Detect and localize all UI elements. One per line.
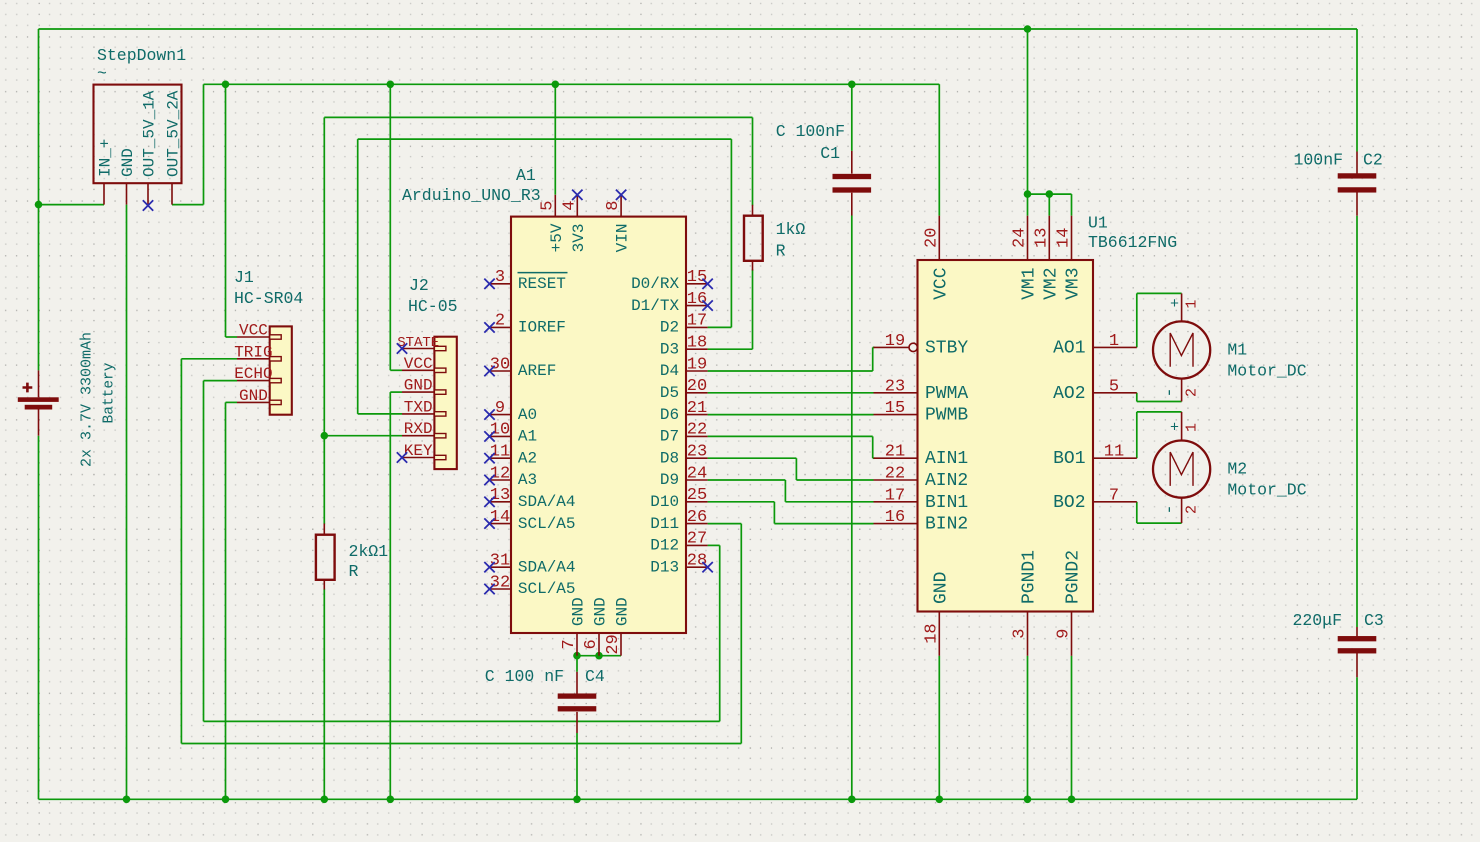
wire RXD riser [323,117,325,435]
svg-text:D11: D11 [650,515,679,533]
no-connect A2 [484,453,494,463]
svg-text:D10: D10 [650,493,679,511]
svg-text:13: 13 [1032,228,1051,248]
svg-text:SCL/A5: SCL/A5 [518,515,576,533]
wire VM3 link [1071,194,1073,216]
svg-text:20: 20 [922,228,941,248]
svg-text:GND: GND [119,148,137,177]
junction rail / U1 GND [936,796,944,804]
svg-text:IOREF: IOREF [518,319,566,337]
svg-text:VCC: VCC [404,355,433,373]
svg-text:R: R [349,562,359,581]
wire VM join [1028,193,1072,195]
no-connect D1/TX [702,300,712,310]
pin 11 A2 [490,457,512,459]
svg-text:22: 22 [885,465,905,484]
wire to C4 [576,656,578,672]
svg-text:AIN2: AIN2 [925,471,968,491]
svg-text:31: 31 [490,552,510,571]
pin 11 BO1 [1093,457,1137,459]
pin 24 D9 [686,479,708,481]
svg-text:2kΩ1: 2kΩ1 [349,542,389,561]
wire AIN1 link [873,457,875,459]
wire IN_+ to rail [39,204,105,206]
svg-text:2x 3.7V 3300mAh: 2x 3.7V 3300mAh [79,332,96,467]
junction Arduino GND B [595,652,603,660]
svg-text:D7: D7 [660,428,679,446]
junction +5V / J1 VCC [222,81,230,89]
svg-text:A3: A3 [518,471,537,489]
svg-text:GND: GND [570,597,588,626]
no-connect SCL/A5 [484,584,494,594]
svg-text:19: 19 [885,332,905,351]
svg-text:3: 3 [495,268,505,287]
no-connect D0/RX [702,279,712,289]
svg-text:5: 5 [538,201,557,211]
pin 22 AIN2 [874,479,918,481]
wire BO1-M2+ [1137,411,1182,413]
svg-text:1: 1 [1184,300,1201,309]
driver U1 TB6612FNG [874,214,1178,656]
svg-text:11: 11 [1104,443,1124,462]
pin 18 D3 [686,348,708,350]
svg-text:D13: D13 [650,558,679,576]
svg-text:6: 6 [582,639,601,649]
svg-text:Battery: Battery [102,362,118,423]
pin 17 BIN1 [874,501,918,503]
pin 1 AO1 [1093,346,1137,348]
svg-text:SCL/A5: SCL/A5 [518,580,576,598]
svg-text:Motor_DC: Motor_DC [1227,361,1306,380]
svg-text:24: 24 [1011,228,1030,248]
svg-text:C 100 nF: C 100 nF [485,667,564,686]
wire D10-BIN2 jog [773,502,775,524]
svg-text:GND: GND [404,377,433,395]
regulator StepDown1 [94,46,187,205]
wire right rail below C3 [1356,677,1358,799]
capacitor C3 220uF [1292,611,1383,677]
svg-text:24: 24 [687,464,707,483]
svg-text:A0: A0 [518,406,537,424]
svg-text:D12: D12 [650,537,679,555]
resistor R 2kOhm1 [316,524,388,590]
pin 4 3V3 [576,195,578,217]
svg-text:3: 3 [1011,628,1030,638]
wire R1 top run [324,116,752,118]
svg-text:R: R [776,242,786,261]
pin 21 D6 [686,414,708,416]
no-connect SDA/A4 [484,497,494,507]
wire J1 GND link [226,401,238,403]
svg-text:15: 15 [687,268,707,287]
junction rail / StepDown GND [123,796,131,804]
svg-text:VM3: VM3 [1064,268,1084,300]
svg-text:D5: D5 [660,384,679,402]
svg-text:7: 7 [560,639,579,649]
svg-text:+: + [1170,420,1179,437]
wire D5-PWMA [708,392,874,394]
svg-text:-: - [1161,387,1180,397]
wire J2 VCC link [390,369,402,371]
wire D2 riser [730,139,732,327]
wire BIN2 link [774,523,873,525]
no-connect 3V3 [572,190,582,200]
wire TRIG bottom run [181,743,741,745]
svg-text:+: + [1170,296,1179,313]
pin 7 GND [576,633,578,656]
pin 20 VCC [938,216,940,260]
svg-text:9: 9 [495,399,505,418]
junction +5V / J2 VCC [387,81,395,89]
svg-text:IN_+: IN_+ [97,139,115,177]
pin 7 BO2 [1093,501,1137,503]
svg-text:Motor_DC: Motor_DC [1227,481,1306,500]
svg-text:Arduino_UNO_R3: Arduino_UNO_R3 [402,186,541,205]
svg-text:D8: D8 [660,449,679,467]
svg-text:OUT_5V_2A: OUT_5V_2A [165,90,183,177]
svg-text:9: 9 [1055,628,1074,638]
svg-text:AO2: AO2 [1053,384,1085,404]
svg-text:D9: D9 [660,471,679,489]
pin 16 D1/TX [686,305,708,307]
wire BO1 jog [1136,412,1138,458]
wire D9-BIN1 jog [784,480,786,502]
svg-text:D2: D2 [660,319,679,337]
pin 20 D5 [686,392,708,394]
wire D4-STBY jog [872,347,874,371]
wire top GND rail [39,28,1358,30]
wire D2 link [708,326,732,328]
connector J2 HC-05 [397,276,457,469]
wire +5V to Arduino [554,84,556,195]
pin 30 AREF [490,370,512,372]
pin 16 BIN2 [874,523,918,525]
wire BIN1 link [785,501,873,503]
svg-text:J1: J1 [234,268,254,287]
svg-text:BIN1: BIN1 [925,493,968,513]
pin 17 D2 [686,326,708,328]
svg-text:8: 8 [604,201,623,211]
wire D11 link [708,523,742,525]
svg-text:TRIG: TRIG [234,343,272,361]
svg-text:~: ~ [97,64,107,83]
wire D8 run [708,457,797,459]
wire C1 bottom down [851,216,853,800]
svg-text:+5V: +5V [548,223,566,252]
svg-text:A1: A1 [518,428,537,446]
svg-text:M2: M2 [1227,460,1247,479]
pin 18 GND [938,612,940,656]
no-connect RESET [484,279,494,289]
junction Arduino GND A [573,652,581,660]
svg-text:VCC: VCC [239,322,268,340]
junction VM2 [1046,190,1054,198]
no-connect J2 KEY [397,452,407,462]
svg-text:GND: GND [614,597,632,626]
svg-text:TXD: TXD [404,398,433,416]
svg-text:5: 5 [1109,377,1119,396]
mcu A1 Arduino_UNO_R3 [402,166,713,656]
pin 31 SDA/A4 [490,566,512,568]
svg-text:VM1: VM1 [1020,268,1040,300]
wire R1 top link [752,117,754,205]
wire left rail lower [38,436,40,800]
wire D6-PWMB [708,414,874,416]
svg-text:21: 21 [687,399,707,418]
junction rail / C1 [848,796,856,804]
wire bottom GND rail [39,798,1358,800]
wire VM1 link [1027,194,1029,216]
svg-text:28: 28 [687,552,707,571]
svg-text:HC-05: HC-05 [408,297,458,316]
wire right rail above C2 [1356,29,1358,152]
wire PGND1 down [1027,656,1029,800]
wire J2 GND down [389,392,391,799]
wire R2 bottom down [323,589,325,800]
no-connect SCL/A5 [484,518,494,528]
pin 19 D4 [686,370,708,372]
svg-text:BO1: BO1 [1053,449,1085,469]
svg-text:16: 16 [885,508,905,527]
wire J1 ECHO link [204,380,238,382]
battery 2x 3.7V 3300mAh [18,332,118,467]
wire C1 top link [851,84,853,151]
svg-text:17: 17 [687,312,707,331]
svg-text:23: 23 [885,377,905,396]
no-connect A1 [484,431,494,441]
pin 25 D10 [686,501,708,503]
svg-text:14: 14 [1055,228,1074,248]
wire C4 down [576,733,578,799]
junction rail / R2 [321,796,329,804]
svg-text:C3: C3 [1364,611,1384,630]
wire GND pins join [577,655,621,657]
wire D9 run [708,479,786,481]
svg-text:14: 14 [490,508,510,527]
svg-text:3V3: 3V3 [570,224,588,253]
wire TRIG down [180,359,182,744]
svg-text:20: 20 [687,377,707,396]
svg-text:10: 10 [490,421,510,440]
pin 5 +5V [554,195,556,217]
svg-text:13: 13 [490,486,510,505]
wire AIN2 link [796,479,873,481]
pin 3 PGND1 [1027,612,1029,656]
no-connect A0 [484,409,494,419]
svg-text:23: 23 [687,443,707,462]
wire D10 run [708,501,775,503]
wire to R2 top [323,436,325,525]
junction rail / PGND1 [1024,796,1032,804]
pin 2 IOREF [490,326,512,328]
pin 32 SCL/A5 [490,588,512,590]
svg-text:PWMB: PWMB [925,406,968,426]
svg-text:D4: D4 [660,362,679,380]
pin 29 GND [620,633,622,656]
svg-text:STBY: STBY [925,338,968,358]
wire TXD riser [357,139,359,414]
wire AO1 jog [1136,293,1138,347]
svg-text:25: 25 [687,486,707,505]
svg-text:BO2: BO2 [1053,493,1085,513]
pin 14 SCL/A5 [490,523,512,525]
svg-text:TB6612FNG: TB6612FNG [1088,233,1177,252]
pin 8 VIN [620,195,622,217]
pin 23 PWMA [874,392,918,394]
junction rail / PGND2 [1068,796,1076,804]
wire +5V to J2 VCC [389,84,391,370]
motor M2 Motor_DC [1153,412,1307,523]
svg-text:4: 4 [560,201,579,211]
wire OUT_5V_2A riser [203,84,205,204]
capacitor C1 100nF [776,122,871,216]
pin 27 D12 [686,544,708,546]
no-connect OUT_5V_1A [143,200,153,210]
wire D7 run [708,435,873,437]
resistor R 1kOhm [744,205,805,271]
svg-text:1: 1 [1109,332,1119,351]
wire J1 GND down [225,402,227,799]
svg-text:AO1: AO1 [1053,338,1085,358]
wire ECHO down [203,381,205,722]
wire +5V to U1 VCC [938,84,940,215]
wire OUT_5V_2A stub link [172,204,204,206]
wire TRIG riser to D11 [740,524,742,744]
svg-text:M1: M1 [1227,340,1247,359]
wire R1 bottom link [752,270,754,350]
no-connect AREF [484,366,494,376]
pin 15 D0/RX [686,283,708,285]
pin 21 AIN1 [874,457,918,459]
svg-text:D0/RX: D0/RX [631,275,679,293]
svg-text:17: 17 [885,486,905,505]
svg-text:15: 15 [885,399,905,418]
motor M1 Motor_DC [1153,293,1307,401]
svg-text:29: 29 [604,634,623,654]
wire D3 link [708,348,753,350]
svg-text:C2: C2 [1363,151,1383,170]
junction rail / J1 GND [222,796,230,804]
svg-text:BIN2: BIN2 [925,515,968,535]
svg-text:PWMA: PWMA [925,384,968,404]
svg-text:VCC: VCC [932,267,952,300]
svg-text:27: 27 [687,530,707,549]
wire D4 run [708,370,873,372]
no-connect VIN [616,190,626,200]
svg-text:C4: C4 [585,667,605,686]
wire left rail upper [38,29,40,370]
connector J1 HC-SR04 [234,268,303,415]
pin 22 D7 [686,435,708,437]
svg-text:KEY: KEY [404,442,433,460]
wire U1 GND down [938,656,940,800]
pin 24 VM1 [1027,216,1029,260]
svg-text:PGND2: PGND2 [1064,550,1084,604]
svg-text:19: 19 [687,355,707,374]
svg-text:ECHO: ECHO [234,365,272,383]
junction VM1 [1024,190,1032,198]
wire D12 link [708,544,720,546]
wire ECHO bottom run [204,720,720,722]
junction rail / C4 [573,796,581,804]
svg-text:7: 7 [1109,486,1119,505]
pin 13 SDA/A4 [490,501,512,503]
wire +5V to J1 VCC [225,84,227,337]
pin 19 STBY [874,346,910,348]
svg-text:GND: GND [592,597,610,626]
pin 9 PGND2 [1071,612,1073,656]
svg-text:1: 1 [1184,423,1201,432]
svg-text:18: 18 [687,334,707,353]
svg-text:STATE: STATE [397,335,439,351]
svg-text:16: 16 [687,290,707,309]
junction rail / J2 GND [387,796,395,804]
svg-text:PGND1: PGND1 [1020,550,1040,604]
svg-text:A1: A1 [516,166,536,185]
pin 28 D13 [686,566,708,568]
wire TXD top run [358,138,732,140]
svg-text:SDA/A4: SDA/A4 [518,493,576,511]
wire BO2-M2- [1137,522,1182,524]
svg-text:RXD: RXD [404,420,433,438]
svg-text:VIN: VIN [614,224,632,253]
wire AO2-M1- [1137,401,1182,403]
svg-text:2: 2 [1184,388,1201,397]
svg-text:-: - [1161,504,1180,514]
wire StepDown GND down [126,205,128,800]
no-connect IOREF [484,322,494,332]
svg-text:D6: D6 [660,406,679,424]
wire J2 TXD link [358,413,402,415]
svg-text:A2: A2 [518,449,537,467]
wire J1 VCC link [226,336,238,338]
pin 13 VM2 [1048,216,1050,260]
wire AO2 jog [1136,393,1138,402]
pin 12 A3 [490,479,512,481]
no-connect J2 STATE [397,343,407,353]
wire AO1-M1+ [1137,292,1182,294]
svg-text:22: 22 [687,421,707,440]
svg-text:SDA/A4: SDA/A4 [518,558,576,576]
wire D7-AIN1 jog [872,436,874,458]
wire VM2 link [1048,194,1050,216]
junction +5V / Arduino [552,81,560,89]
svg-text:18: 18 [922,623,941,643]
svg-text:2: 2 [495,312,505,331]
wire right rail C2-C3 [1356,216,1358,627]
capacitor C4 100nF [485,667,605,733]
pin 10 A1 [490,435,512,437]
svg-text:220μF: 220μF [1292,611,1342,630]
wire VM riser [1027,29,1029,194]
wire D8-AIN2 jog [795,458,797,480]
svg-text:AIN1: AIN1 [925,449,968,469]
svg-text:RESET: RESET [518,275,566,293]
svg-text:11: 11 [490,443,510,462]
capacitor C2 100nF [1293,151,1382,216]
svg-text:D3: D3 [660,340,679,358]
svg-text:30: 30 [490,355,510,374]
wire J2 RXD link [324,435,402,437]
pin 26 D11 [686,523,708,525]
no-connect D13 [702,562,712,572]
svg-text:AREF: AREF [518,362,556,380]
pin 5 AO2 [1093,392,1137,394]
svg-text:1kΩ: 1kΩ [776,220,806,239]
pin 15 PWMB [874,414,918,416]
wire BO2 jog [1136,502,1138,523]
svg-text:J2: J2 [409,276,429,295]
